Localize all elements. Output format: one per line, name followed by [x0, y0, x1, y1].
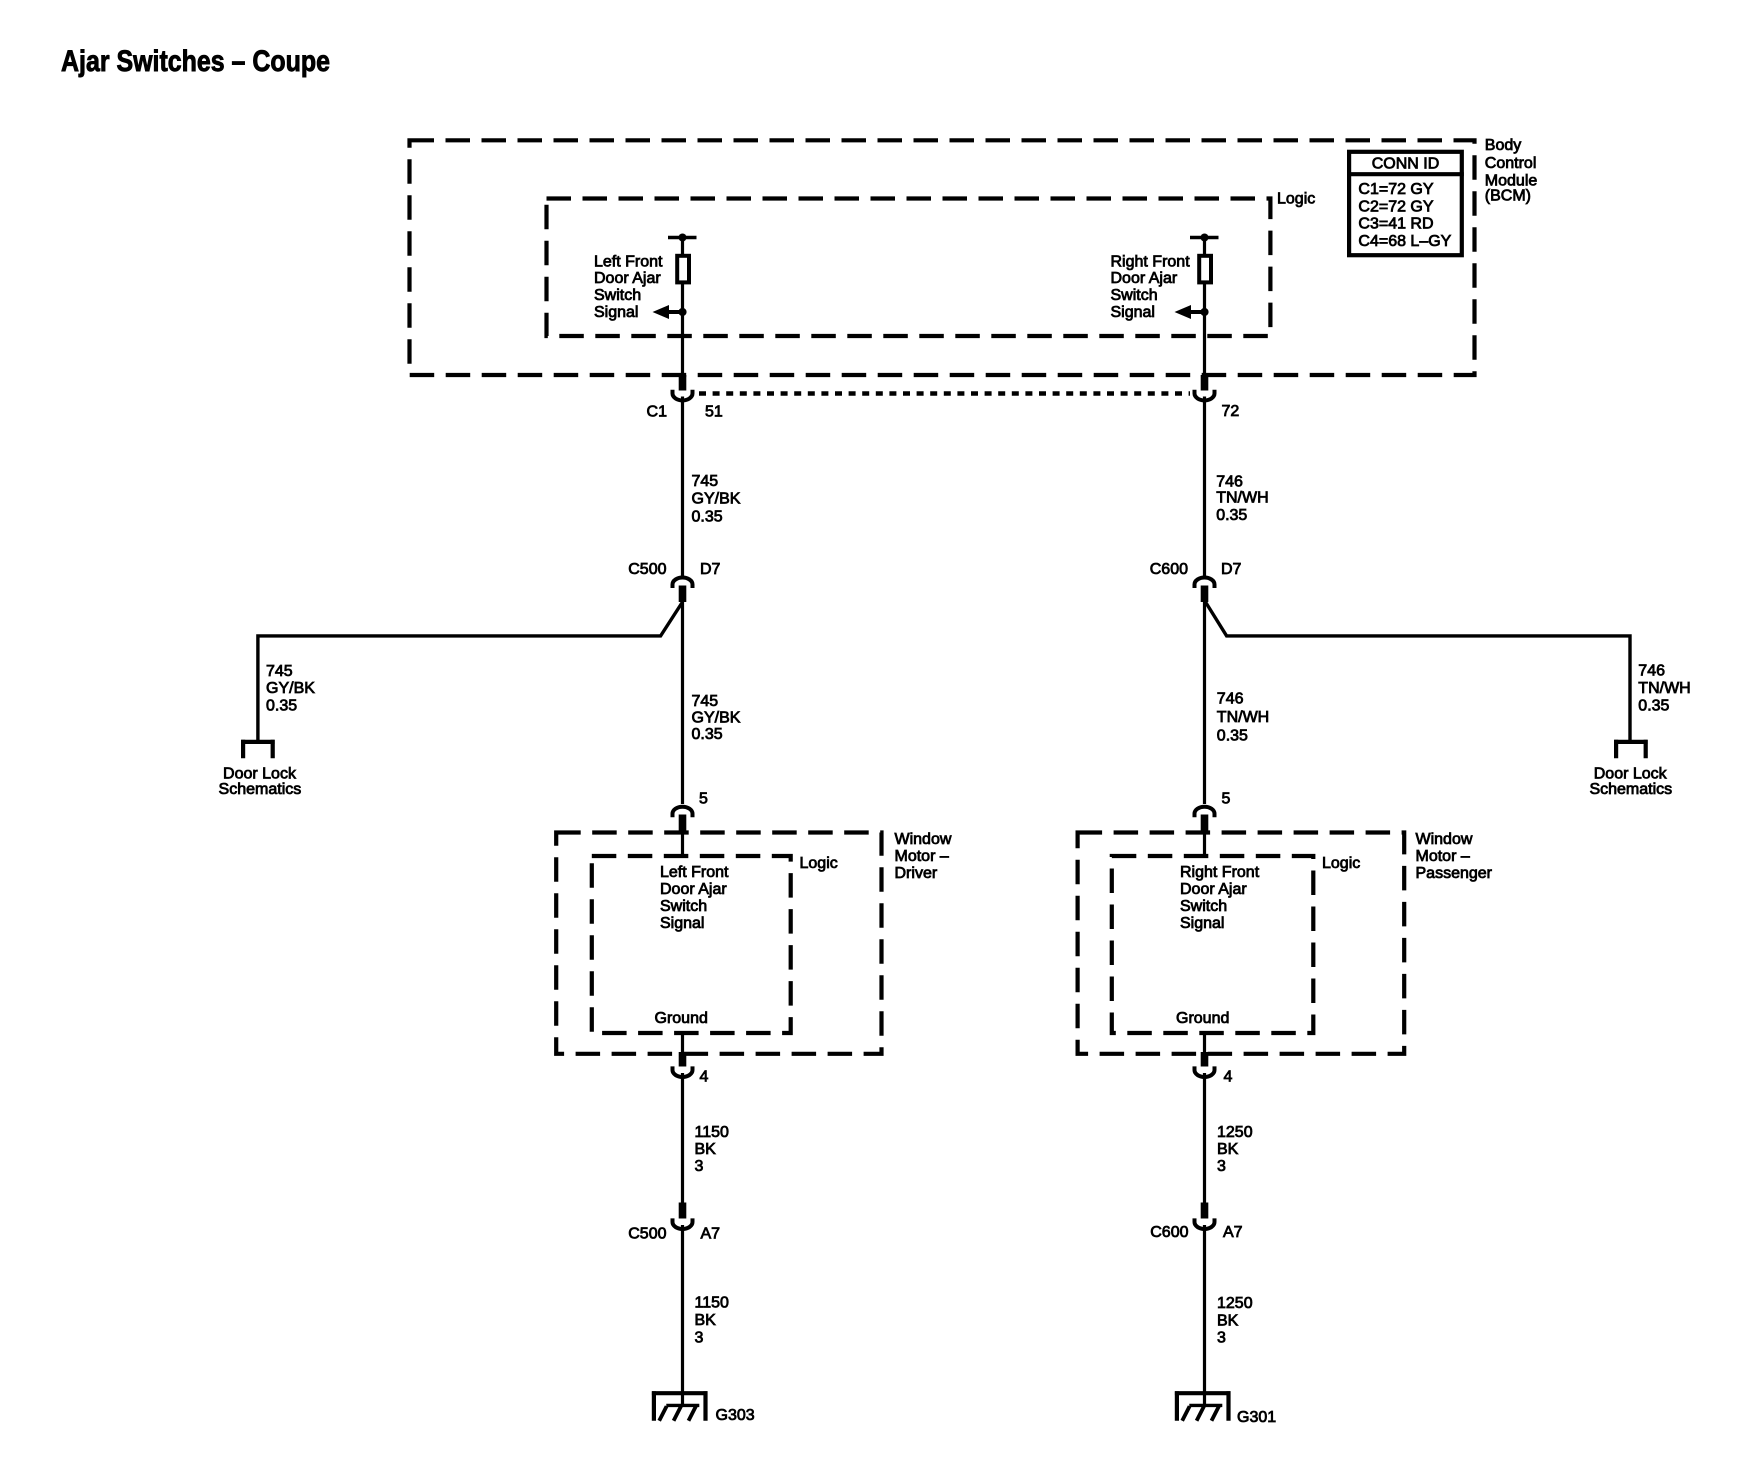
- svg-text:A7: A7: [1223, 1224, 1243, 1241]
- svg-text:Ground: Ground: [655, 1010, 708, 1027]
- label wire 746 TN/WH 0.35 mid: [1217, 691, 1269, 745]
- svg-text:Left Front: Left Front: [660, 864, 729, 881]
- svg-text:BK: BK: [695, 1312, 717, 1329]
- connector C1 arc pin 72: [1195, 390, 1215, 401]
- wire left branch to door lock schematics: [258, 602, 683, 742]
- label 72: [1222, 403, 1240, 420]
- window motor passenger outer dashed box: [1078, 833, 1405, 1054]
- ground G301 symbol: [1175, 1391, 1231, 1421]
- svg-text:Motor –: Motor –: [1416, 848, 1470, 865]
- svg-text:745: 745: [266, 663, 293, 680]
- wire 746 lower segment: [1203, 600, 1206, 804]
- svg-text:Door Ajar: Door Ajar: [660, 881, 727, 898]
- label Body Control Module (BCM): [1485, 137, 1538, 204]
- svg-text:BK: BK: [695, 1141, 717, 1158]
- title Ajar Switches - Coupe: [61, 45, 330, 78]
- connector C600 D7 arc: [1195, 578, 1215, 589]
- svg-text:Switch: Switch: [1180, 898, 1227, 915]
- label Left Front Door Ajar Switch Signal (motor): [660, 864, 729, 932]
- svg-text:4: 4: [1224, 1068, 1233, 1085]
- label C600 (A7): [1150, 1224, 1188, 1241]
- svg-text:Door Lock: Door Lock: [223, 765, 297, 782]
- svg-text:3: 3: [1217, 1158, 1226, 1175]
- offpage connector right door lock: [1614, 740, 1647, 758]
- svg-text:Door Lock: Door Lock: [1594, 765, 1668, 782]
- svg-text:3: 3: [1217, 1330, 1226, 1347]
- svg-text:C600: C600: [1150, 1224, 1188, 1241]
- svg-text:C1: C1: [647, 403, 668, 420]
- pin 5 terminal left (thick): [679, 815, 687, 833]
- resistor left front door ajar switch: [677, 256, 689, 283]
- svg-text:Right Front: Right Front: [1111, 253, 1191, 270]
- wire ground out of passenger box: [1203, 1033, 1206, 1053]
- label Window Motor - Passenger: [1416, 831, 1493, 882]
- svg-text:3: 3: [695, 1158, 704, 1175]
- svg-text:Right Front: Right Front: [1180, 864, 1260, 881]
- connector C600 A7 arc: [1195, 1218, 1215, 1229]
- pin A7 terminal left (thick): [679, 1203, 687, 1219]
- window motor driver outer dashed box: [556, 833, 881, 1054]
- label D7 left: [700, 561, 721, 578]
- svg-text:Window: Window: [1416, 831, 1473, 848]
- label G301: [1237, 1409, 1276, 1426]
- wire ground out of driver box: [681, 1033, 684, 1053]
- wire 1150 upper segment: [681, 1073, 684, 1203]
- label wire 1150 BK 3 upper: [695, 1124, 730, 1175]
- label G303: [716, 1407, 755, 1424]
- wire 746 upper segment: [1203, 397, 1206, 577]
- svg-text:TN/WH: TN/WH: [1216, 490, 1268, 507]
- svg-text:C600: C600: [1150, 561, 1188, 578]
- svg-text:1250: 1250: [1217, 1295, 1253, 1312]
- pin 4 terminal left (thick): [679, 1052, 687, 1067]
- svg-text:(BCM): (BCM): [1485, 187, 1531, 204]
- label wire 745 GY/BK 0.35 mid: [692, 693, 741, 743]
- CONN ID table: [1347, 152, 1464, 255]
- wire 1250 lower segment: [1203, 1225, 1206, 1406]
- svg-text:72: 72: [1222, 403, 1240, 420]
- pin A7 terminal right (thick): [1201, 1203, 1209, 1219]
- resistor right front door ajar switch: [1199, 256, 1211, 283]
- node left switch top crossbar: [668, 234, 697, 242]
- svg-text:Door Ajar: Door Ajar: [1180, 881, 1247, 898]
- svg-text:C2=72 GY: C2=72 GY: [1358, 199, 1433, 216]
- wire 745 upper segment: [681, 397, 684, 577]
- connector C500 D7 arc: [673, 578, 693, 589]
- svg-text:1250: 1250: [1217, 1124, 1253, 1141]
- svg-text:Signal: Signal: [594, 304, 638, 321]
- svg-text:TN/WH: TN/WH: [1217, 709, 1269, 726]
- ground G303 symbol: [652, 1391, 708, 1421]
- label D7 right: [1221, 561, 1242, 578]
- svg-text:Control: Control: [1485, 155, 1537, 172]
- label wire 1150 BK 3 lower: [695, 1295, 730, 1347]
- wire into driver logic box: [681, 832, 684, 856]
- label Door Lock Schematics left: [219, 765, 302, 798]
- svg-text:746: 746: [1217, 691, 1244, 708]
- connector C1 arc pin 51: [673, 390, 693, 401]
- arrow left switch signal: [653, 305, 687, 319]
- label A7 left: [701, 1225, 721, 1242]
- wire 745 lower segment: [681, 600, 684, 804]
- label pin 5 left: [699, 790, 708, 807]
- label Logic (passenger): [1322, 855, 1360, 872]
- svg-text:0.35: 0.35: [1638, 698, 1669, 715]
- svg-text:Logic: Logic: [1277, 191, 1315, 208]
- svg-text:A7: A7: [701, 1225, 721, 1242]
- svg-text:C1=72 GY: C1=72 GY: [1358, 181, 1433, 198]
- label C500: [628, 561, 666, 578]
- svg-text:Schematics: Schematics: [1589, 781, 1672, 798]
- label Left Front Door Ajar Switch Signal (BCM): [594, 253, 663, 321]
- svg-text:BK: BK: [1217, 1141, 1239, 1158]
- wire into passenger logic box: [1203, 832, 1206, 856]
- pin 72 terminal (thick): [1201, 375, 1209, 391]
- label Right Front Door Ajar Switch Signal (BCM): [1111, 253, 1191, 321]
- label wire 746 TN/WH 0.35 upper: [1216, 473, 1268, 524]
- svg-text:G303: G303: [716, 1407, 755, 1424]
- svg-text:G301: G301: [1237, 1409, 1276, 1426]
- svg-text:Left Front: Left Front: [594, 253, 663, 270]
- svg-text:746: 746: [1216, 473, 1243, 490]
- svg-text:3: 3: [695, 1330, 704, 1347]
- svg-text:CONN ID: CONN ID: [1372, 155, 1440, 172]
- pin 5 terminal right (thick): [1201, 815, 1209, 833]
- window motor passenger logic dashed box: [1112, 856, 1314, 1033]
- label Ground left: [655, 1010, 708, 1027]
- label wire 1250 BK 3 upper: [1217, 1124, 1253, 1175]
- connector pin 4 arc left: [673, 1066, 693, 1077]
- svg-text:5: 5: [699, 790, 708, 807]
- wire 1250 upper segment: [1203, 1073, 1206, 1203]
- label Right Front Door Ajar Switch Signal (motor): [1180, 864, 1260, 932]
- svg-text:745: 745: [692, 473, 719, 490]
- svg-text:0.35: 0.35: [692, 726, 723, 743]
- label wire 745 GY/BK 0.35 upper: [692, 473, 741, 526]
- svg-text:Motor –: Motor –: [895, 848, 949, 865]
- svg-text:C500: C500: [628, 1225, 666, 1242]
- svg-text:D7: D7: [700, 561, 721, 578]
- label Window Motor - Driver: [895, 831, 952, 882]
- offpage connector left door lock: [241, 740, 274, 758]
- wire left switch vertical: [681, 238, 684, 376]
- connector pin 5 arc right: [1195, 807, 1215, 817]
- label wire 746 TN/WH 0.35 far right: [1638, 663, 1690, 715]
- label wire 1250 BK 3 lower: [1217, 1295, 1253, 1347]
- pin D7 terminal right (thick): [1201, 586, 1209, 603]
- svg-text:TN/WH: TN/WH: [1638, 680, 1690, 697]
- svg-text:Schematics: Schematics: [219, 781, 302, 798]
- label wire 745 GY/BK 0.35 far left: [266, 663, 315, 715]
- svg-text:Door Ajar: Door Ajar: [1111, 270, 1178, 287]
- svg-text:1150: 1150: [695, 1295, 730, 1312]
- svg-text:4: 4: [700, 1068, 709, 1085]
- svg-text:Switch: Switch: [1111, 287, 1158, 304]
- svg-text:Switch: Switch: [660, 898, 707, 915]
- connector pin 5 arc left: [673, 807, 693, 817]
- svg-text:Body: Body: [1485, 137, 1521, 154]
- svg-text:C500: C500: [628, 561, 666, 578]
- svg-text:Logic: Logic: [1322, 855, 1360, 872]
- svg-text:D7: D7: [1221, 561, 1242, 578]
- svg-text:5: 5: [1222, 790, 1231, 807]
- label Door Lock Schematics right: [1589, 765, 1672, 798]
- svg-text:Signal: Signal: [660, 915, 704, 932]
- label 51: [705, 403, 723, 420]
- label pin 4 left: [700, 1068, 709, 1085]
- label Logic (driver): [800, 855, 838, 872]
- svg-text:Ajar Switches – Coupe: Ajar Switches – Coupe: [61, 45, 330, 78]
- label Logic (BCM): [1277, 191, 1315, 208]
- svg-text:Door Ajar: Door Ajar: [594, 270, 661, 287]
- label Ground right: [1176, 1010, 1229, 1027]
- svg-text:0.35: 0.35: [692, 508, 723, 525]
- wire right switch vertical: [1203, 238, 1206, 376]
- svg-text:C4=68 L–GY: C4=68 L–GY: [1358, 233, 1451, 250]
- svg-text:Switch: Switch: [594, 287, 641, 304]
- label C600: [1150, 561, 1188, 578]
- svg-text:745: 745: [692, 693, 719, 710]
- pin 4 terminal right (thick): [1201, 1052, 1209, 1067]
- label pin 5 right: [1222, 790, 1231, 807]
- pin D7 terminal left (thick): [679, 586, 687, 603]
- svg-text:Signal: Signal: [1180, 915, 1224, 932]
- svg-text:51: 51: [705, 403, 723, 420]
- svg-text:Ground: Ground: [1176, 1010, 1229, 1027]
- connector C500 A7 arc: [673, 1218, 693, 1229]
- svg-text:1150: 1150: [695, 1124, 730, 1141]
- label C1: [647, 403, 668, 420]
- svg-text:GY/BK: GY/BK: [266, 680, 315, 697]
- pin 51 terminal (thick): [679, 375, 687, 391]
- svg-text:BK: BK: [1217, 1312, 1239, 1329]
- svg-text:Driver: Driver: [895, 865, 938, 882]
- BCM logic inner dashed box: [547, 199, 1271, 337]
- connector body dotted line: [699, 391, 1190, 395]
- label A7 right: [1223, 1224, 1243, 1241]
- node right switch top crossbar: [1190, 234, 1219, 242]
- svg-text:Logic: Logic: [800, 855, 838, 872]
- label pin 4 right: [1224, 1068, 1233, 1085]
- arrow right switch signal: [1175, 305, 1209, 319]
- svg-text:GY/BK: GY/BK: [692, 491, 741, 508]
- svg-text:Signal: Signal: [1111, 304, 1155, 321]
- connector pin 4 arc right: [1195, 1066, 1215, 1077]
- svg-text:0.35: 0.35: [1217, 728, 1248, 745]
- wire 1150 lower segment: [681, 1225, 684, 1406]
- BCM outer dashed box: [410, 140, 1475, 375]
- svg-text:0.35: 0.35: [1216, 507, 1247, 524]
- svg-text:746: 746: [1638, 663, 1665, 680]
- wire right branch to door lock schematics: [1206, 602, 1631, 742]
- svg-text:0.35: 0.35: [266, 698, 297, 715]
- window motor driver logic dashed box: [592, 856, 791, 1033]
- svg-text:GY/BK: GY/BK: [692, 710, 741, 727]
- label C500 (A7): [628, 1225, 666, 1242]
- svg-text:Passenger: Passenger: [1416, 865, 1493, 882]
- svg-text:Window: Window: [895, 831, 952, 848]
- svg-text:C3=41 RD: C3=41 RD: [1358, 216, 1433, 233]
